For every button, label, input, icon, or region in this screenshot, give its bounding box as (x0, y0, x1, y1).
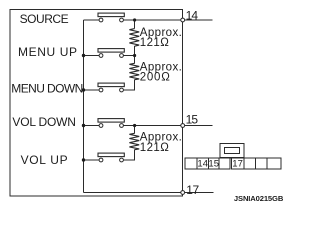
svg-text:VOL DOWN: VOL DOWN (12, 115, 76, 129)
svg-text:14: 14 (197, 159, 208, 170)
svg-text:17: 17 (232, 159, 243, 170)
wire bus to SW4 (84, 125, 100, 127)
switch assembly outer box (10, 10, 183, 197)
switch SW3 MENU DOWN (pushbutton) (98, 83, 124, 92)
junction node bus/SW2 (82, 54, 85, 57)
junction node bus/SW5 (82, 158, 85, 161)
junction node bus/SW3 (82, 88, 85, 91)
wire bus to SW2 (84, 55, 100, 57)
wire SW4 out to terminal 15 (123, 125, 180, 127)
wire SW5 out to R3 bottom (123, 150, 134, 160)
svg-text:121Ω: 121Ω (140, 142, 169, 154)
junction node R3 top / terminal 15 row (133, 124, 136, 127)
wire terminal 14 stub (185, 19, 213, 21)
svg-text:15: 15 (186, 112, 199, 126)
wire SW3 out to R2 bottom (123, 80, 134, 90)
svg-text:14: 14 (186, 8, 199, 22)
wire terminal 15 stub (185, 125, 213, 127)
switch SW4 VOL DOWN (pushbutton) (98, 119, 124, 128)
terminal 17 circle (181, 191, 185, 195)
connector lock tab outer (220, 144, 244, 158)
connector lock tab inner (224, 148, 239, 154)
wire bus top corner to SW1 (84, 19, 100, 21)
switch SW5 VOL UP (pushbutton) (98, 153, 124, 162)
svg-text:MENU UP: MENU UP (18, 45, 77, 59)
wire bottom run bus to terminal 17 (84, 192, 181, 194)
svg-text:MENU DOWN: MENU DOWN (11, 82, 83, 96)
resistor R2 lead top (134, 56, 136, 64)
resistor R1 zigzag (129, 29, 139, 47)
wire bus to SW5 (84, 159, 100, 161)
switch SW2 MENU UP (pushbutton) (98, 49, 124, 58)
svg-text:SOURCE: SOURCE (20, 12, 69, 26)
svg-text:JSNIA0215GB: JSNIA0215GB (234, 194, 284, 203)
resistor R3 zigzag (129, 133, 139, 149)
wire SW2 out to node B (123, 55, 134, 57)
junction node R1-R2 / SW2 row (133, 54, 136, 57)
resistor R3 lead top (134, 126, 136, 134)
wire terminal 17 stub (185, 192, 214, 194)
switch SW1 SOURCE (pushbutton) (98, 13, 124, 22)
common bus wire (left vertical) (83, 20, 85, 193)
resistor R1 lead bottom (134, 46, 136, 55)
svg-text:121Ω: 121Ω (140, 37, 169, 49)
junction node R1 top / terminal 14 row (133, 18, 136, 21)
terminal 14 circle (181, 18, 185, 22)
wire SW1 out to terminal 14 (123, 19, 180, 21)
connector housing left group (185, 158, 230, 169)
svg-text:15: 15 (208, 159, 219, 170)
svg-text:200Ω: 200Ω (140, 72, 170, 84)
resistor R2 zigzag (129, 63, 139, 79)
resistor R1 lead top (134, 20, 136, 29)
junction node bus/SW4 (82, 124, 85, 127)
svg-text:VOL UP: VOL UP (21, 153, 68, 167)
terminal 15 circle (181, 124, 185, 128)
svg-text:17: 17 (186, 183, 199, 197)
connector housing right group (232, 158, 282, 169)
wire bus to SW3 (84, 89, 100, 91)
